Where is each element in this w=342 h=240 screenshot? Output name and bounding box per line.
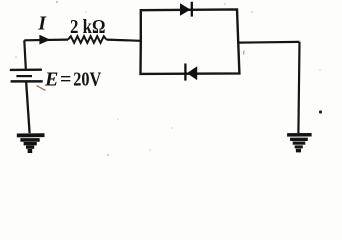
- diode D1 (top, pointing right): [180, 3, 191, 16]
- ground (left): [17, 135, 45, 151]
- dark dot speck right side: [319, 110, 322, 113]
- svg-text:20V: 20V: [73, 68, 101, 90]
- wire: right vertical down to ground: [298, 42, 299, 133]
- faint specks: [224, 3, 226, 5]
- battery E: middle short plate: [16, 75, 32, 77]
- svg-text:2 kΩ: 2 kΩ: [70, 16, 105, 38]
- wire: left vertical down to battery: [24, 40, 26, 69]
- diode block rectangle (left edge, top edge, right edge, bottom edge): [141, 9, 240, 74]
- battery E: bottom long plate: [11, 80, 43, 83]
- battery E: top long plate: [10, 68, 42, 71]
- svg-text:I: I: [37, 13, 47, 35]
- resistor R 2k zigzag: [68, 36, 107, 43]
- wire: top-left horizontal from battery corner to resistor: [24, 38, 68, 41]
- red speck near diode block: [243, 51, 245, 55]
- current arrow I: [39, 35, 50, 45]
- wire: diode block to right corner: [239, 41, 300, 44]
- diode D2 (bottom, pointing left): [187, 66, 197, 80]
- svg-text:E: E: [44, 68, 58, 90]
- ground (right): [287, 135, 312, 151]
- wire: battery to left ground: [26, 83, 29, 134]
- pencil smudge near battery: [37, 86, 46, 91]
- svg-text:=: =: [60, 68, 71, 90]
- wire: resistor to diode block: [107, 40, 141, 41]
